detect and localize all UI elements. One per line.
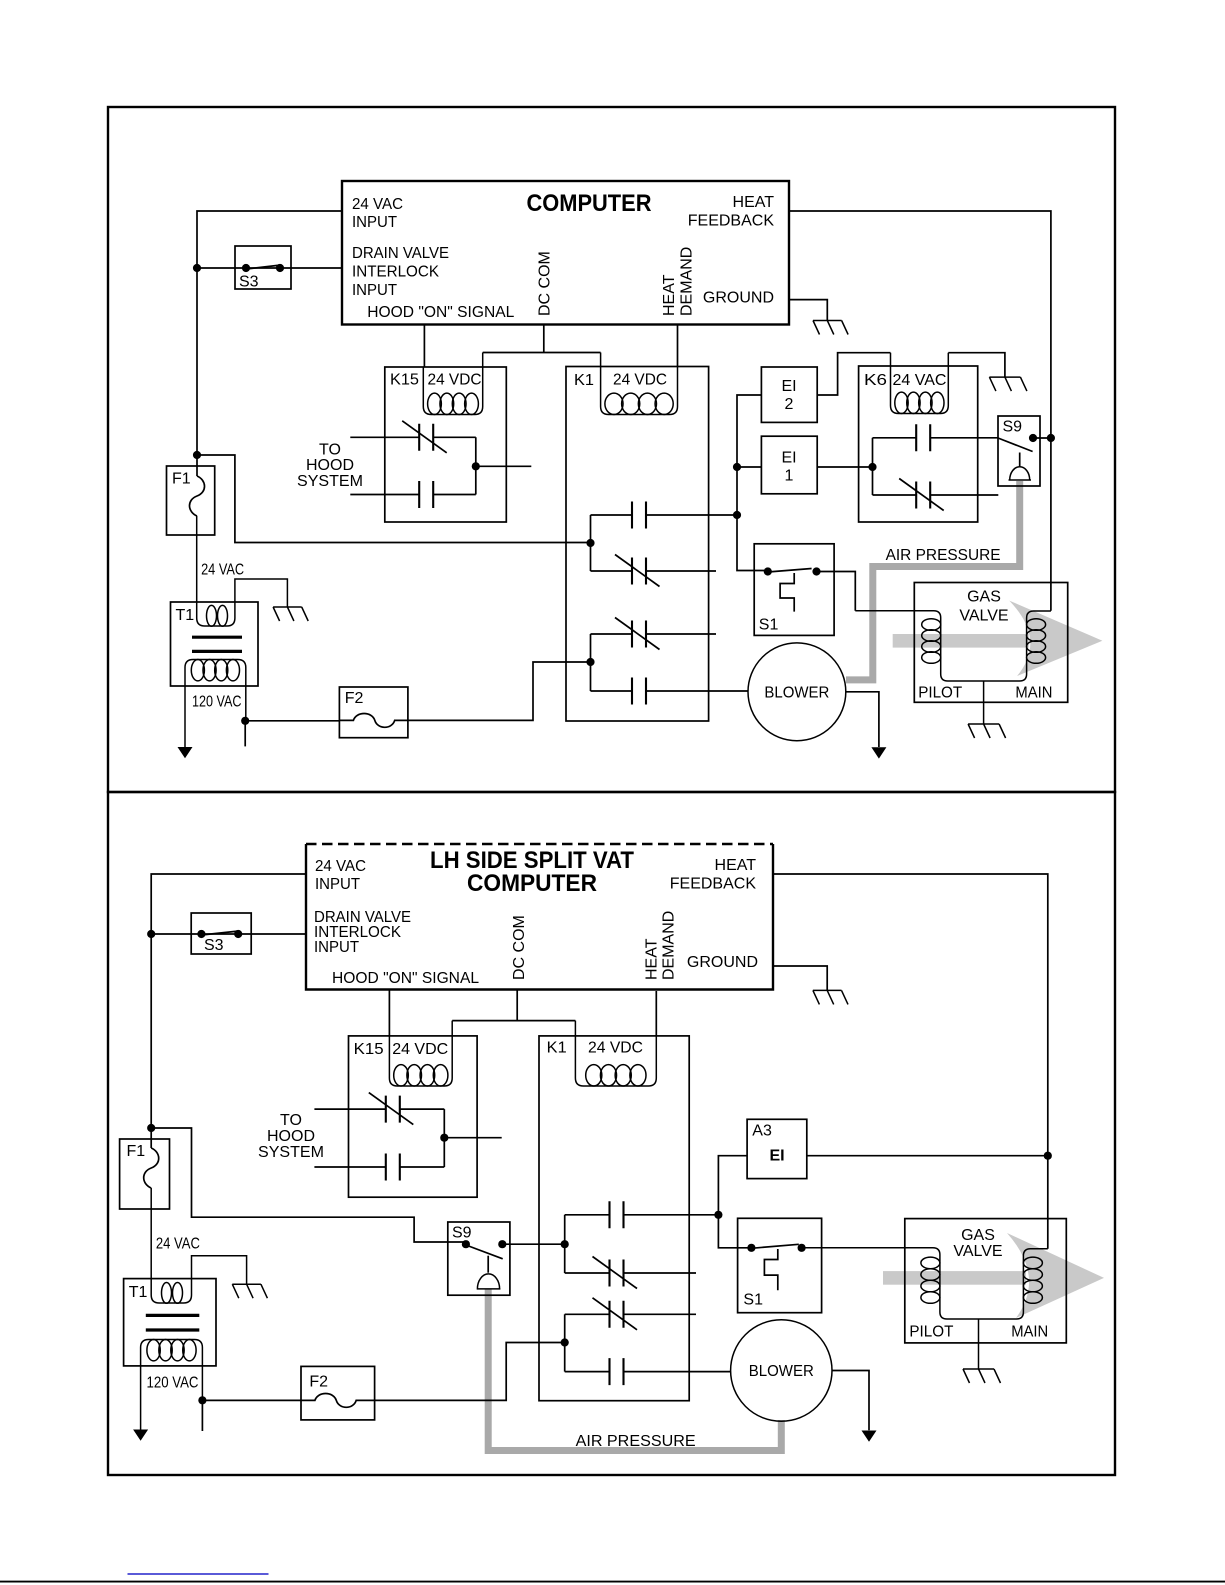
node K15 common b — [440, 1134, 448, 1142]
contact K6 NC — [873, 479, 999, 511]
pressure switch S9 b — [448, 1222, 510, 1295]
svg-text:A3: A3 — [752, 1122, 772, 1139]
wire A3 to S1 — [718, 1156, 751, 1248]
wire 120VAC open stub b — [201, 1400, 203, 1431]
svg-text:120 VAC: 120 VAC — [192, 693, 242, 710]
node junction S3 branch — [193, 264, 201, 272]
svg-text:K15: K15 — [354, 1041, 384, 1058]
computer title label — [527, 190, 652, 217]
svg-text:MAIN: MAIN — [1011, 1324, 1048, 1341]
wire K1 upper common b — [564, 1215, 566, 1273]
svg-text:PILOT: PILOT — [909, 1324, 953, 1341]
contact K15 NO — [350, 481, 476, 508]
svg-text:GAS: GAS — [967, 589, 1001, 606]
air pressure tube gray b — [488, 1289, 781, 1451]
wire hood on signal — [423, 325, 425, 368]
svg-text:K1: K1 — [547, 1039, 567, 1056]
wire heat feedback b — [773, 874, 1048, 1249]
svg-text:S3: S3 — [204, 937, 224, 954]
wire drain valve interlock b — [151, 933, 306, 935]
contact K15 NC — [350, 421, 476, 453]
svg-text:INPUT: INPUT — [314, 939, 359, 956]
wire F1 junction to S9 — [151, 1128, 466, 1242]
svg-text:GAS: GAS — [961, 1227, 995, 1244]
svg-text:COMPUTER: COMPUTER — [527, 190, 652, 217]
top panel border — [108, 107, 1115, 792]
node EI1 junction — [733, 463, 741, 471]
svg-text:T1: T1 — [129, 1284, 148, 1301]
air pressure tube gray — [846, 481, 1020, 680]
wire ground pin — [789, 300, 827, 321]
coil K1 24VDC — [601, 353, 678, 415]
svg-text:INPUT: INPUT — [352, 282, 397, 299]
pin DC COM label b — [511, 915, 528, 980]
svg-text:S1: S1 — [759, 617, 779, 634]
svg-text:AIR PRESSURE: AIR PRESSURE — [886, 547, 1001, 564]
computer LH side split vat box — [306, 844, 773, 990]
wire EI1 left — [737, 466, 761, 468]
ground symbol gas valve — [968, 724, 1006, 738]
transformer T1 b — [124, 1188, 247, 1430]
module A3 EI — [747, 1119, 807, 1178]
node K1 lower feed b — [561, 1338, 569, 1346]
node heat feedback junction b — [1044, 1152, 1052, 1160]
contact K1 NO upper — [591, 502, 737, 529]
coil gas valve pilot — [922, 619, 941, 664]
wire DC COM rail b — [452, 990, 575, 1021]
svg-text:SYSTEM: SYSTEM — [258, 1144, 324, 1161]
svg-text:F2: F2 — [345, 690, 364, 707]
svg-text:S9: S9 — [452, 1225, 472, 1242]
pin 24 VAC INPUT label — [352, 196, 403, 231]
node junction 120VAC — [241, 717, 249, 725]
wire gas valve coils b — [802, 1248, 1048, 1319]
pin HEAT FEEDBACK label b — [670, 857, 757, 893]
svg-text:24 VDC: 24 VDC — [613, 372, 667, 389]
svg-text:EI: EI — [781, 450, 796, 467]
svg-text:VALVE: VALVE — [959, 608, 1008, 625]
blower motor — [748, 643, 846, 741]
wire EI2 to S1 riser — [737, 395, 768, 571]
pin HOOD ON SIGNAL label — [367, 304, 514, 321]
node K1 NO to riser — [733, 511, 741, 519]
pin HEAT DEMAND label — [661, 247, 695, 316]
coil gas valve pilot b — [921, 1257, 940, 1303]
wire F2 to K1 lower contact — [408, 662, 591, 720]
wire heat demand — [677, 325, 679, 367]
computer U-COMP box — [342, 181, 789, 325]
label 120 VAC — [192, 693, 242, 710]
contact K1 NC lower — [591, 618, 717, 650]
node K1 lower feed — [586, 658, 594, 666]
contact K15 NO b — [314, 1154, 444, 1181]
svg-text:FEEDBACK: FEEDBACK — [688, 213, 775, 230]
svg-text:DRAIN VALVE: DRAIN VALVE — [352, 245, 449, 262]
svg-text:F2: F2 — [309, 1373, 328, 1390]
svg-text:SYSTEM: SYSTEM — [297, 473, 363, 490]
wire heat demand b — [655, 991, 657, 1036]
relay K6 box — [859, 366, 978, 522]
wire K15 contact common — [476, 437, 532, 494]
ground arrow blower — [871, 747, 886, 758]
svg-text:24 VDC: 24 VDC — [392, 1041, 448, 1058]
pin HEAT DEMAND label b — [643, 911, 677, 980]
svg-text:INPUT: INPUT — [352, 214, 397, 231]
svg-text:TO: TO — [319, 442, 341, 459]
contact K1 NC lower b — [565, 1298, 696, 1330]
svg-text:F1: F1 — [127, 1143, 146, 1160]
relay S1 blower switch b — [738, 1218, 822, 1312]
node K15 common — [472, 462, 480, 470]
wire K1 lower common — [590, 634, 592, 691]
svg-text:HEAT: HEAT — [733, 194, 775, 211]
svg-text:24 VAC: 24 VAC — [201, 561, 244, 578]
svg-text:HEAT: HEAT — [643, 938, 660, 980]
pin GROUND label b — [687, 954, 758, 971]
svg-text:TO: TO — [280, 1112, 302, 1129]
label 24 VAC secondary b — [156, 1236, 200, 1253]
svg-text:EI: EI — [781, 378, 796, 395]
svg-text:DC COM: DC COM — [537, 251, 554, 316]
contact K1 NO upper b — [565, 1201, 719, 1228]
wire F2 to K1 lower b — [375, 1343, 565, 1401]
pin DC COM label — [537, 251, 554, 316]
svg-text:GROUND: GROUND — [703, 290, 774, 307]
svg-text:24 VAC: 24 VAC — [893, 372, 947, 389]
wire gas valve to ground b — [978, 1319, 980, 1369]
svg-text:HOOD: HOOD — [267, 1128, 315, 1145]
coil K1 24VDC b — [575, 1021, 656, 1086]
wire K6 contact common — [872, 438, 874, 495]
label 120 VAC b — [147, 1375, 199, 1392]
relay K1 box b — [539, 1036, 689, 1401]
node S9 left b — [462, 1240, 470, 1248]
wire gas valve to ground — [983, 681, 985, 724]
wire A3 to heat feedback riser — [807, 1155, 1048, 1157]
wire F1 junction to K1 contact — [197, 455, 591, 543]
ground symbol computer — [813, 321, 848, 335]
bottom panel border — [108, 792, 1115, 1475]
svg-text:PILOT: PILOT — [918, 685, 962, 702]
fuse F1 — [167, 466, 215, 535]
node A3 riser K1 junction — [714, 1211, 722, 1219]
blower motor b — [731, 1320, 832, 1421]
gas valve flow arrow b — [883, 1233, 1104, 1318]
ground symbol T1 primary — [273, 607, 308, 621]
svg-text:24 VAC: 24 VAC — [156, 1236, 200, 1253]
pin 24 VAC INPUT label b — [315, 858, 366, 893]
footer link underline — [128, 1573, 269, 1575]
gas valve flow arrow — [893, 601, 1103, 676]
svg-text:F1: F1 — [172, 471, 191, 488]
svg-text:HOOD: HOOD — [306, 457, 354, 474]
wire hood on signal b — [388, 990, 390, 1036]
node S9 contact — [1029, 434, 1037, 442]
svg-text:DC COM: DC COM — [511, 915, 528, 980]
svg-text:K6: K6 — [864, 372, 887, 389]
gas valve box — [914, 583, 1067, 703]
svg-text:24 VAC: 24 VAC — [352, 196, 403, 213]
switch S3 b — [191, 913, 251, 954]
label 24 VAC secondary — [201, 561, 244, 578]
wire DC COM rail — [483, 325, 601, 353]
label AIR PRESSURE b — [576, 1433, 696, 1450]
wire EI1 to K6 contact — [817, 466, 872, 468]
svg-text:VALVE: VALVE — [953, 1243, 1002, 1260]
contact K1 NC upper b — [565, 1257, 696, 1289]
coil gas valve main — [1027, 619, 1046, 664]
svg-text:HOOD "ON" SIGNAL: HOOD "ON" SIGNAL — [367, 304, 514, 321]
svg-text:K15: K15 — [390, 372, 419, 389]
fuse F2 — [339, 687, 408, 738]
node K1 upper feed — [586, 539, 594, 547]
label TO HOOD SYSTEM — [297, 442, 363, 490]
svg-text:S9: S9 — [1003, 419, 1023, 436]
node S9 right b — [498, 1240, 506, 1248]
svg-text:INTERLOCK: INTERLOCK — [352, 264, 439, 281]
pin GROUND label — [703, 290, 774, 307]
svg-text:MAIN: MAIN — [1015, 685, 1052, 702]
svg-text:K1: K1 — [574, 372, 594, 389]
wire gas valve coils — [855, 611, 1051, 681]
contact K1 NC upper — [591, 555, 717, 587]
svg-text:24 VDC: 24 VDC — [588, 1039, 643, 1056]
relay K15 box b — [349, 1036, 478, 1197]
wire EI2 to K6 coil — [817, 353, 890, 395]
label AIR PRESSURE — [886, 547, 1001, 564]
wire ground pin b — [773, 966, 827, 990]
pin DRAIN VALVE INTERLOCK INPUT label b — [314, 909, 411, 956]
svg-text:120 VAC: 120 VAC — [147, 1375, 199, 1392]
wire blower to ground arrow b — [832, 1371, 869, 1431]
svg-text:BLOWER: BLOWER — [764, 684, 829, 701]
coil K6 24VAC — [891, 353, 949, 414]
node junction F1 top — [193, 451, 201, 459]
node junction S3 branch b — [147, 930, 155, 938]
svg-text:INPUT: INPUT — [315, 876, 360, 893]
svg-text:COMPUTER: COMPUTER — [467, 870, 597, 897]
wire T1 to F2 — [245, 720, 339, 722]
module EI 1 — [761, 436, 817, 494]
gas valve box b — [905, 1219, 1067, 1343]
contact K1 NO lower b — [565, 1358, 731, 1385]
ground arrow blower b — [862, 1431, 877, 1442]
contact K1 NO lower — [591, 678, 749, 705]
wire drain valve interlock through S3 — [197, 267, 342, 269]
svg-text:HEAT: HEAT — [715, 857, 757, 874]
ground symbol T1 primary b — [232, 1284, 267, 1298]
pin HEAT FEEDBACK label — [688, 194, 775, 230]
switch S3 — [235, 246, 291, 291]
wire T1 to F2 b — [202, 1399, 301, 1401]
wire 24 VAC input to F1 — [197, 211, 342, 476]
pin DRAIN VALVE INTERLOCK INPUT label — [352, 245, 449, 299]
ground symbol computer b — [813, 990, 848, 1004]
wire 120VAC open stub — [244, 721, 246, 747]
svg-text:HEAT: HEAT — [661, 274, 678, 316]
relay S1 blower switch — [754, 544, 834, 636]
svg-text:HOOD "ON" SIGNAL: HOOD "ON" SIGNAL — [332, 970, 479, 987]
wire K1 upper common — [590, 515, 592, 571]
coil K15 24VDC b — [389, 1021, 452, 1086]
svg-text:DEMAND: DEMAND — [678, 247, 695, 316]
wire S9 to heat feedback riser — [1033, 437, 1051, 439]
wire K1 lower common b — [564, 1314, 566, 1371]
svg-text:FEEDBACK: FEEDBACK — [670, 876, 757, 893]
contact K15 NC b — [314, 1093, 444, 1125]
svg-text:DEMAND: DEMAND — [661, 911, 678, 980]
ground arrow T1 secondary — [178, 747, 193, 758]
node S9 riser junction — [1047, 434, 1055, 442]
transformer T1 — [171, 516, 288, 747]
fuse F1 b — [120, 1139, 170, 1209]
svg-text:BLOWER: BLOWER — [749, 1363, 814, 1380]
footer rule — [0, 1581, 1225, 1583]
pin HOOD ON SIGNAL label b — [332, 970, 479, 987]
wire blower to ground arrow — [846, 692, 879, 747]
module EI 2 — [761, 367, 817, 422]
svg-text:S3: S3 — [239, 274, 259, 291]
relay K15 box — [385, 367, 507, 522]
wire S9 to K1 b — [502, 1243, 564, 1245]
svg-text:1: 1 — [785, 468, 794, 485]
fuse F2 b — [301, 1366, 375, 1420]
node junction 120VAC b — [198, 1396, 206, 1404]
coil gas valve main b — [1023, 1257, 1042, 1303]
svg-text:EI: EI — [769, 1148, 784, 1165]
node K6 EI1 junction — [868, 463, 876, 471]
ground symbol gas valve b — [963, 1369, 1001, 1383]
svg-text:GROUND: GROUND — [687, 954, 758, 971]
wire S1 to gas valve pilot — [817, 572, 856, 611]
ground symbol K6 — [989, 377, 1027, 391]
wire heat feedback to gas valve — [789, 211, 1051, 611]
svg-text:T1: T1 — [176, 607, 195, 624]
node junction F1 top b — [147, 1124, 155, 1132]
svg-text:S1: S1 — [743, 1291, 763, 1308]
wire K15 common b — [444, 1109, 501, 1167]
contact K6 NO — [873, 424, 999, 451]
svg-text:24 VDC: 24 VDC — [428, 372, 482, 389]
computer title LH SIDE SPLIT VAT — [430, 847, 634, 897]
wire 24 VAC input b — [151, 874, 306, 1148]
svg-text:2: 2 — [785, 396, 794, 413]
ground arrow T1 secondary b — [133, 1430, 148, 1441]
pressure switch S9 — [998, 416, 1040, 486]
svg-text:AIR PRESSURE: AIR PRESSURE — [576, 1433, 696, 1450]
wire K6 coil to ground — [948, 353, 1005, 377]
label TO HOOD SYSTEM b — [258, 1112, 324, 1161]
coil K15 24VDC — [423, 353, 482, 415]
relay K1 box — [566, 367, 709, 722]
svg-text:24 VAC: 24 VAC — [315, 858, 366, 875]
node K1 upper feed b — [561, 1240, 569, 1248]
